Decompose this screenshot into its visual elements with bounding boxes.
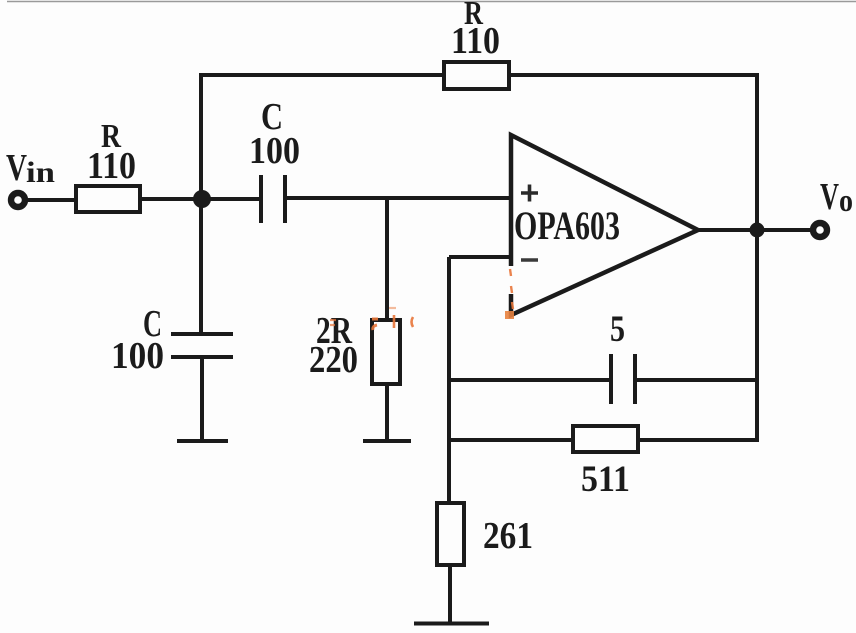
- wire R5 to ground: [448, 565, 452, 623]
- wire inverting input: [449, 255, 511, 259]
- resistor R3 box: [372, 320, 400, 384]
- wire R4 to right vertical: [638, 438, 759, 442]
- svg-text:in: in: [26, 156, 55, 189]
- svg-text:V: V: [820, 176, 839, 218]
- wire inverting branch to C3: [449, 378, 611, 382]
- svg-text:o: o: [839, 182, 853, 218]
- svg-text:100: 100: [111, 335, 164, 377]
- wire input terminal to R1: [27, 198, 76, 202]
- label Vo: [820, 176, 853, 218]
- ground of R5: [414, 622, 489, 626]
- node A junction dot: [193, 190, 211, 208]
- op-amp U1 triangle: [508, 135, 698, 315]
- svg-text:5: 5: [610, 309, 625, 350]
- svg-text:261: 261: [483, 515, 533, 557]
- label Vin: [6, 147, 55, 189]
- wire main to R3: [385, 198, 389, 320]
- resistor R4 box: [573, 426, 638, 452]
- svg-text:511: 511: [581, 459, 630, 500]
- resistor R1 box: [76, 186, 140, 212]
- capacitor C3 right plate: [633, 354, 637, 404]
- wire C1 to op-amp noninverting input: [285, 196, 513, 200]
- watermark remnant: [330, 269, 514, 330]
- wire R1 to node A: [140, 197, 261, 201]
- svg-text:100: 100: [249, 130, 300, 172]
- ground of R3: [363, 439, 411, 443]
- svg-text:OPA603: OPA603: [514, 203, 620, 248]
- wire C2 to ground: [200, 357, 204, 441]
- wire inverting branch vertical: [447, 257, 451, 503]
- svg-text:220: 220: [309, 339, 358, 381]
- wire node A down to C2: [199, 199, 203, 335]
- op-amp plus input sign: [521, 185, 538, 202]
- capacitor C3 left plate: [609, 354, 613, 404]
- svg-text:110: 110: [87, 145, 136, 187]
- wire top left segment: [199, 73, 444, 77]
- wire op-amp output to terminal: [697, 228, 812, 232]
- capacitor C2 bottom plate: [171, 355, 233, 359]
- resistor R2 box (top feedback): [444, 62, 509, 89]
- op-amp minus input sign: [521, 258, 538, 262]
- wire inverting branch to R4: [449, 438, 573, 442]
- input terminal: [11, 193, 25, 207]
- capacitor C2 top plate: [171, 332, 233, 336]
- capacitor C1 right plate: [283, 175, 287, 223]
- node B output junction dot: [750, 223, 765, 238]
- svg-text:110: 110: [451, 20, 500, 62]
- output terminal: [813, 223, 827, 237]
- svg-text:V: V: [6, 147, 27, 189]
- top border line: [7, 1, 856, 3]
- wire C3 to output branch: [635, 378, 757, 382]
- wire right vertical top to output node: [755, 73, 759, 230]
- capacitor C1 left plate: [259, 175, 263, 223]
- wire R3 to ground: [385, 384, 389, 441]
- wire top right segment: [509, 73, 759, 77]
- wire node A up to top feedback: [199, 75, 203, 199]
- wire right vertical output node to R4: [755, 230, 759, 442]
- resistor R5 box: [437, 503, 464, 565]
- ground of C2: [177, 439, 228, 443]
